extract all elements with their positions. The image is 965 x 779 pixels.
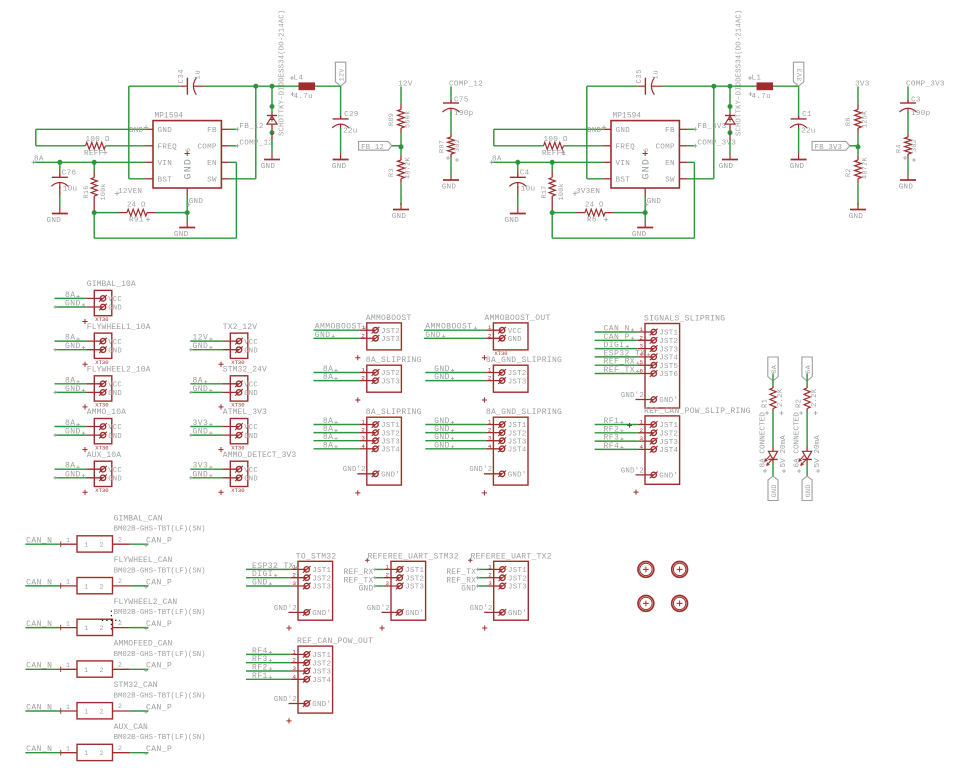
svg-text:SCHOTTKY-DIODESS34(DO-214AC): SCHOTTKY-DIODESS34(DO-214AC) <box>279 10 287 136</box>
svg-text:VCC: VCC <box>244 339 258 347</box>
svg-text:CAN_P: CAN_P <box>146 662 172 671</box>
svg-text:BM02B-GHS-TBT(LF)(SN): BM02B-GHS-TBT(LF)(SN) <box>114 651 206 659</box>
svg-text:4: 4 <box>640 443 644 450</box>
svg-text:GND': GND' <box>381 472 400 480</box>
svg-text:C4: C4 <box>520 169 530 177</box>
svg-text:GND: GND <box>587 127 602 135</box>
svg-text:8A_SLIPRING: 8A_SLIPRING <box>366 408 422 417</box>
svg-text:JST2: JST2 <box>312 575 331 583</box>
svg-text:JST1: JST1 <box>508 422 527 430</box>
svg-text:JST1: JST1 <box>405 567 424 575</box>
svg-text:1: 1 <box>66 746 70 753</box>
svg-text:REF_TX: REF_TX <box>604 366 636 375</box>
svg-text:125K: 125K <box>862 110 870 128</box>
svg-text:XT30: XT30 <box>231 487 244 494</box>
svg-text:JST6: JST6 <box>659 371 678 379</box>
svg-text:GND: GND <box>65 342 81 351</box>
svg-text:JST2: JST2 <box>405 575 424 583</box>
svg-text:1: 1 <box>66 579 70 586</box>
svg-text:2: 2 <box>386 572 390 579</box>
svg-text:2: 2 <box>100 583 104 590</box>
svg-text:GND: GND <box>47 217 62 225</box>
svg-text:10u: 10u <box>63 186 78 194</box>
svg-text:GND'2: GND'2 <box>621 392 644 400</box>
svg-text:2: 2 <box>293 572 297 579</box>
svg-text:5V 20mA: 5V 20mA <box>814 435 822 468</box>
svg-text:JST2: JST2 <box>381 430 400 438</box>
svg-text:GND': GND' <box>659 473 678 481</box>
svg-text:R16: R16 <box>83 185 91 198</box>
svg-text:GND: GND <box>719 163 734 171</box>
svg-text:GND: GND <box>252 579 268 588</box>
svg-text:GND: GND <box>790 163 805 171</box>
svg-text:1: 1 <box>386 563 390 570</box>
svg-text:AMMOBOOST_OUT: AMMOBOOST_OUT <box>485 314 551 323</box>
svg-text:BM02B-GHS-TBT(LF)(SN): BM02B-GHS-TBT(LF)(SN) <box>114 526 206 534</box>
svg-text:100 Ω: 100 Ω <box>544 136 568 144</box>
svg-text:JST5: JST5 <box>659 363 678 371</box>
svg-text:COMP: COMP <box>655 144 675 152</box>
svg-text:CAN_P: CAN_P <box>146 745 172 754</box>
svg-text:FREQ: FREQ <box>616 144 636 152</box>
svg-text:2: 2 <box>361 375 365 382</box>
svg-text:GND: GND <box>244 390 258 398</box>
svg-text:JST4: JST4 <box>312 677 331 685</box>
svg-text:1u: 1u <box>194 70 202 80</box>
svg-text:CAN_P: CAN_P <box>146 620 172 629</box>
svg-text:C34: C34 <box>178 69 186 84</box>
svg-text:R6: R6 <box>587 217 597 225</box>
svg-text:8A: 8A <box>771 364 779 373</box>
svg-text:3V3: 3V3 <box>855 80 870 88</box>
svg-text:3: 3 <box>386 580 390 587</box>
svg-text:L4: L4 <box>294 74 304 82</box>
svg-text:GND: GND <box>108 390 122 398</box>
svg-text:1: 1 <box>640 419 644 426</box>
svg-text:BM02B-GHS-TBT(LF)(SN): BM02B-GHS-TBT(LF)(SN) <box>114 734 206 742</box>
svg-text:3: 3 <box>293 665 297 672</box>
svg-text:CAN_N: CAN_N <box>26 537 52 546</box>
svg-text:JST1: JST1 <box>659 422 678 430</box>
svg-text:REFF: REFF <box>84 150 104 158</box>
svg-text:JST1: JST1 <box>659 330 678 338</box>
svg-text:BM02B-GHS-TBT(LF)(SN): BM02B-GHS-TBT(LF)(SN) <box>114 693 206 701</box>
svg-text:COMP: COMP <box>197 144 217 152</box>
svg-text:EN: EN <box>207 160 217 168</box>
svg-text:GND: GND <box>193 428 209 437</box>
svg-text:22u: 22u <box>801 128 816 136</box>
svg-text:R4: R4 <box>896 144 904 153</box>
svg-text:FB_3V3: FB_3V3 <box>697 123 726 131</box>
svg-text:1: 1 <box>488 324 492 331</box>
svg-text:2: 2 <box>100 750 104 757</box>
svg-text:L1: L1 <box>752 74 762 82</box>
svg-text:GND'2: GND'2 <box>470 605 493 613</box>
svg-text:2: 2 <box>118 745 122 752</box>
svg-text:STM32_24V: STM32_24V <box>223 366 267 375</box>
svg-text:2: 2 <box>118 578 122 585</box>
svg-text:GND': GND' <box>312 610 331 618</box>
svg-text:4: 4 <box>293 673 297 680</box>
svg-text:SW: SW <box>207 177 217 185</box>
svg-text:GND: GND <box>641 158 652 180</box>
svg-text:6: 6 <box>185 148 192 152</box>
svg-text:CAN_P: CAN_P <box>146 578 172 587</box>
svg-text:CAN_N: CAN_N <box>26 703 52 712</box>
svg-text:R17: R17 <box>541 185 549 198</box>
svg-text:AMMOBOOST: AMMOBOOST <box>366 314 412 323</box>
svg-text:CAN_N: CAN_N <box>26 745 52 754</box>
svg-text:VCC: VCC <box>108 296 122 304</box>
svg-text:302: 302 <box>454 139 462 152</box>
svg-text:C1: C1 <box>802 111 812 119</box>
svg-text:COMP_12: COMP_12 <box>239 140 273 148</box>
svg-text:RF1: RF1 <box>252 672 268 681</box>
svg-text:VCC: VCC <box>244 424 258 432</box>
svg-text:VCC: VCC <box>108 467 122 475</box>
svg-text:2: 2 <box>100 542 104 549</box>
svg-text:FLYWHEEL2_CAN: FLYWHEEL2_CAN <box>114 598 178 607</box>
svg-text:R91: R91 <box>129 217 144 225</box>
svg-text:JST3: JST3 <box>659 346 678 354</box>
svg-text:5V 20mA: 5V 20mA <box>780 435 788 468</box>
svg-text:AMMO_DETECT_3V3: AMMO_DETECT_3V3 <box>223 451 297 460</box>
svg-text:GND': GND' <box>659 397 678 405</box>
svg-text:VCC: VCC <box>508 328 522 336</box>
svg-text:VIN: VIN <box>616 160 631 168</box>
svg-text:GND: GND <box>193 470 209 479</box>
svg-text:GND: GND <box>332 163 347 171</box>
svg-text:GND': GND' <box>508 610 527 618</box>
svg-text:FB_12: FB_12 <box>239 123 263 131</box>
svg-text:2: 2 <box>361 332 365 339</box>
svg-text:REF_CAN_POW_SLIP_RING: REF_CAN_POW_SLIP_RING <box>644 407 751 416</box>
svg-text:JST4: JST4 <box>381 447 400 455</box>
svg-text:GND: GND <box>261 163 276 171</box>
svg-text:2: 2 <box>118 703 122 710</box>
svg-text:2: 2 <box>118 536 122 543</box>
svg-text:FLYWHEEL1_10A: FLYWHEEL1_10A <box>87 323 151 332</box>
svg-text:24 Ω: 24 Ω <box>585 202 604 210</box>
svg-text:100 Ω: 100 Ω <box>86 136 110 144</box>
svg-text:AMMOFEED_CAN: AMMOFEED_CAN <box>114 640 173 649</box>
svg-text:4: 4 <box>488 443 492 450</box>
svg-text:FLYWHEEL2_10A: FLYWHEEL2_10A <box>87 366 151 375</box>
svg-text:MP1594: MP1594 <box>155 113 184 121</box>
svg-text:R89: R89 <box>388 113 396 126</box>
svg-text:2: 2 <box>293 657 297 664</box>
svg-text:R2: R2 <box>796 399 804 408</box>
svg-text:GND: GND <box>434 373 450 382</box>
svg-text:6: 6 <box>640 368 644 375</box>
svg-text:GND: GND <box>108 347 122 355</box>
svg-text:6A: 6A <box>805 364 813 373</box>
svg-text:4: 4 <box>361 443 365 450</box>
svg-text:GND: GND <box>771 484 779 497</box>
svg-text:AUX_10A: AUX_10A <box>87 451 121 460</box>
svg-text:1: 1 <box>84 667 88 674</box>
svg-text:3V3EN: 3V3EN <box>576 188 600 196</box>
svg-text:JST2: JST2 <box>508 575 527 583</box>
svg-text:BM02B-GHS-TBT(LF)(SN): BM02B-GHS-TBT(LF)(SN) <box>114 609 206 617</box>
svg-text:GND': GND' <box>312 701 331 709</box>
svg-text:BST: BST <box>158 177 173 185</box>
svg-text:FB_12: FB_12 <box>361 144 384 152</box>
svg-text:GND: GND <box>193 342 209 351</box>
svg-text:GND'2: GND'2 <box>274 605 297 613</box>
svg-text:2: 2 <box>118 662 122 669</box>
svg-text:XT30: XT30 <box>95 487 108 494</box>
svg-text:FREQ: FREQ <box>158 144 178 152</box>
svg-text:2: 2 <box>488 375 492 382</box>
svg-text:GND: GND <box>244 347 258 355</box>
svg-text:VCC: VCC <box>108 424 122 432</box>
svg-text:24 Ω: 24 Ω <box>127 202 146 210</box>
svg-text:8A_GND_SLIPRING: 8A_GND_SLIPRING <box>486 408 562 417</box>
svg-text:12V: 12V <box>398 80 413 88</box>
svg-text:R1: R1 <box>762 399 770 408</box>
svg-text:JST3: JST3 <box>405 584 424 592</box>
svg-text:8A: 8A <box>323 441 334 450</box>
svg-text:VCC: VCC <box>108 382 122 390</box>
svg-text:JST2: JST2 <box>659 431 678 439</box>
svg-text:GND: GND <box>129 127 144 135</box>
svg-text:12VEN: 12VEN <box>118 188 142 196</box>
svg-text:BST: BST <box>616 177 631 185</box>
svg-text:EN: EN <box>665 160 675 168</box>
svg-text:2: 2 <box>488 427 492 434</box>
svg-text:GND'2: GND'2 <box>621 467 644 475</box>
svg-text:GND: GND <box>392 213 407 221</box>
svg-text:GND: GND <box>183 158 194 180</box>
svg-text:R3: R3 <box>388 168 396 177</box>
svg-text:CAN_N: CAN_N <box>26 620 52 629</box>
svg-text:GND: GND <box>65 428 81 437</box>
svg-text:GND: GND <box>505 217 520 225</box>
svg-text:GND': GND' <box>405 610 424 618</box>
svg-text:1u: 1u <box>652 70 660 80</box>
svg-text:100k: 100k <box>100 183 108 201</box>
svg-text:1: 1 <box>84 750 88 757</box>
svg-text:3: 3 <box>293 580 297 587</box>
svg-text:3: 3 <box>361 435 365 442</box>
svg-text:GND: GND <box>65 385 81 394</box>
svg-text:JST2: JST2 <box>508 430 527 438</box>
svg-text:1: 1 <box>488 419 492 426</box>
svg-text:JST2: JST2 <box>508 370 527 378</box>
svg-text:VCC: VCC <box>244 382 258 390</box>
svg-text:GND: GND <box>616 127 631 135</box>
svg-text:GND: GND <box>108 433 122 441</box>
svg-text:GND: GND <box>849 213 864 221</box>
svg-text:JST1: JST1 <box>508 567 527 575</box>
svg-text:RF4: RF4 <box>604 442 620 451</box>
svg-text:BM02B-GHS-TBT(LF)(SN): BM02B-GHS-TBT(LF)(SN) <box>114 567 206 575</box>
svg-text:JST3: JST3 <box>381 378 400 386</box>
svg-text:2: 2 <box>100 667 104 674</box>
svg-text:GND: GND <box>315 331 331 340</box>
svg-text:10u: 10u <box>521 186 536 194</box>
svg-text:5: 5 <box>640 359 644 366</box>
svg-text:JST3: JST3 <box>312 669 331 677</box>
svg-text:AMMO_10A: AMMO_10A <box>87 408 126 417</box>
svg-text:2: 2 <box>100 709 104 716</box>
svg-text:SCHOTTKY-DIODESS34(DO-214AC): SCHOTTKY-DIODESS34(DO-214AC) <box>736 10 744 136</box>
svg-text:REF_TX: REF_TX <box>344 577 374 585</box>
svg-text:JST1: JST1 <box>381 422 400 430</box>
svg-text:3: 3 <box>488 435 492 442</box>
svg-text:JST2: JST2 <box>381 370 400 378</box>
svg-text:3V3: 3V3 <box>796 68 804 81</box>
svg-text:22u: 22u <box>343 128 358 136</box>
svg-text:GND': GND' <box>508 472 527 480</box>
svg-text:CAN_P: CAN_P <box>146 703 172 712</box>
svg-text:1: 1 <box>361 419 365 426</box>
svg-text:8A CONNECTED: 8A CONNECTED <box>760 412 768 468</box>
svg-text:8A: 8A <box>323 373 334 382</box>
svg-text:1: 1 <box>84 625 88 632</box>
svg-text:REF_TX: REF_TX <box>446 569 476 577</box>
svg-text:FB_3V3: FB_3V3 <box>815 144 843 152</box>
svg-text:R87: R87 <box>439 140 447 153</box>
svg-text:FB: FB <box>665 127 675 135</box>
svg-text:2: 2 <box>640 427 644 434</box>
svg-text:JST3: JST3 <box>659 439 678 447</box>
svg-text:2: 2 <box>488 572 492 579</box>
svg-text:GND: GND <box>508 336 522 344</box>
svg-text:4872K: 4872K <box>405 156 413 179</box>
svg-text:VIN: VIN <box>158 160 173 168</box>
svg-text:GND: GND <box>193 385 209 394</box>
svg-text:REFEREE_UART_TX2: REFEREE_UART_TX2 <box>471 552 552 561</box>
svg-text:JST3: JST3 <box>381 336 400 344</box>
svg-text:560k: 560k <box>405 110 413 128</box>
svg-text:GND'2: GND'2 <box>343 466 366 474</box>
svg-text:GND: GND <box>899 184 914 192</box>
svg-text:CAN_N: CAN_N <box>26 578 52 587</box>
svg-text:2.2K: 2.2K <box>811 388 819 407</box>
svg-text:STM32_CAN: STM32_CAN <box>114 681 158 690</box>
svg-text:C29: C29 <box>344 111 359 119</box>
svg-text:VCC: VCC <box>244 467 258 475</box>
svg-text:GND: GND <box>425 331 441 340</box>
svg-text:JST2: JST2 <box>312 660 331 668</box>
svg-text:JST1: JST1 <box>312 652 331 660</box>
svg-text:1: 1 <box>66 537 70 544</box>
svg-text:GIMBAL_10A: GIMBAL_10A <box>87 280 136 289</box>
svg-text:C76: C76 <box>62 169 77 177</box>
svg-text:JST4: JST4 <box>659 355 678 363</box>
svg-text:GND: GND <box>461 586 476 594</box>
svg-text:C35: C35 <box>636 69 644 84</box>
svg-text:R8: R8 <box>845 117 853 126</box>
svg-text:1: 1 <box>488 367 492 374</box>
svg-text:R2: R2 <box>845 168 853 177</box>
svg-text:190p: 190p <box>911 110 931 118</box>
svg-text:2: 2 <box>640 334 644 341</box>
svg-text:MP1594: MP1594 <box>613 113 642 121</box>
svg-text:COMP_3V3: COMP_3V3 <box>906 81 945 89</box>
svg-text:REFEREE_UART_STM32: REFEREE_UART_STM32 <box>368 552 459 561</box>
svg-text:JST3: JST3 <box>508 438 527 446</box>
svg-text:GND: GND <box>65 300 81 309</box>
svg-text:JST2: JST2 <box>381 328 400 336</box>
svg-text:JST1: JST1 <box>312 567 331 575</box>
svg-text:1: 1 <box>293 648 297 655</box>
svg-text:SIGNALS_SLIPRING: SIGNALS_SLIPRING <box>644 315 725 324</box>
svg-text:GND'2: GND'2 <box>274 696 297 704</box>
svg-text:4872K: 4872K <box>862 156 870 179</box>
svg-text:GND: GND <box>805 484 813 497</box>
svg-text:GND: GND <box>189 198 204 206</box>
svg-text:3: 3 <box>488 580 492 587</box>
svg-text:REF_RX: REF_RX <box>446 577 476 585</box>
svg-text:JST4: JST4 <box>659 447 678 455</box>
svg-text:JST3: JST3 <box>508 584 527 592</box>
svg-text:GND: GND <box>434 441 450 450</box>
svg-text:1: 1 <box>640 326 644 333</box>
svg-text:1: 1 <box>84 709 88 716</box>
svg-text:COMP_12: COMP_12 <box>449 81 483 89</box>
svg-text:REF_CAN_POW_OUT: REF_CAN_POW_OUT <box>297 637 373 646</box>
svg-text:ATMEL_3V3: ATMEL_3V3 <box>223 408 267 417</box>
svg-text:CAN_P: CAN_P <box>146 537 172 546</box>
svg-text:2.2K: 2.2K <box>777 388 785 407</box>
svg-text:GND: GND <box>244 476 258 484</box>
svg-text:JST2: JST2 <box>659 338 678 346</box>
svg-text:12V: 12V <box>338 68 346 82</box>
svg-text:GND: GND <box>442 184 457 192</box>
svg-text:GND: GND <box>244 433 258 441</box>
svg-text:JST4: JST4 <box>508 447 527 455</box>
svg-text:2: 2 <box>488 332 492 339</box>
svg-text:8A_GND_SLIPRING: 8A_GND_SLIPRING <box>486 356 562 365</box>
svg-text:6A CONNECTED: 6A CONNECTED <box>794 412 802 468</box>
svg-text:JST3: JST3 <box>508 378 527 386</box>
svg-text:GND: GND <box>65 470 81 479</box>
svg-text:TO_STM32: TO_STM32 <box>296 552 337 561</box>
svg-text:REF_RX: REF_RX <box>344 569 374 577</box>
svg-text:C3: C3 <box>911 96 921 104</box>
svg-text:GND: GND <box>158 127 173 135</box>
svg-text:2: 2 <box>361 427 365 434</box>
svg-text:1: 1 <box>66 620 70 627</box>
svg-text:GND: GND <box>108 305 122 313</box>
svg-text:TX2_12V: TX2_12V <box>223 323 257 332</box>
svg-text:JST3: JST3 <box>312 584 331 592</box>
svg-text:SW: SW <box>665 177 675 185</box>
svg-text:100k: 100k <box>558 183 566 201</box>
svg-text:8A_SLIPRING: 8A_SLIPRING <box>366 356 422 365</box>
svg-text:1: 1 <box>84 542 88 549</box>
svg-text:190p: 190p <box>454 110 474 118</box>
svg-text:C75: C75 <box>454 96 469 104</box>
svg-text:FLYWHEEL_CAN: FLYWHEEL_CAN <box>114 556 173 565</box>
svg-text:VCC: VCC <box>108 339 122 347</box>
svg-text:GIMBAL_CAN: GIMBAL_CAN <box>114 514 163 523</box>
svg-text:1: 1 <box>488 563 492 570</box>
svg-text:302: 302 <box>911 139 919 152</box>
svg-text:1: 1 <box>84 583 88 590</box>
svg-text:GND: GND <box>359 586 374 594</box>
svg-text:GND'2: GND'2 <box>469 466 492 474</box>
svg-text:GND'2: GND'2 <box>367 605 390 613</box>
svg-text:FB: FB <box>207 127 217 135</box>
svg-text:GND: GND <box>647 198 662 206</box>
svg-text:GND: GND <box>108 476 122 484</box>
svg-text:4.7u: 4.7u <box>752 93 771 101</box>
svg-text:1: 1 <box>361 367 365 374</box>
